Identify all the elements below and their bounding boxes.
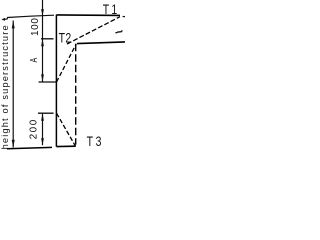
extension line at 100 bottom bbox=[41, 38, 54, 40]
slab underside line bbox=[77, 42, 125, 44]
svg-text:200: 200 bbox=[29, 118, 40, 139]
hidden web right face (dashed vertical) bbox=[75, 44, 77, 145]
dimension line (height of superstructure) bbox=[12, 21, 14, 148]
svg-text:1: 1 bbox=[111, 2, 117, 18]
chain dimension line lower segment bbox=[42, 113, 44, 146]
svg-text:T: T bbox=[103, 2, 110, 18]
arrowhead up (top of height dim) bbox=[12, 21, 15, 29]
extension line at A bottom bbox=[39, 81, 57, 83]
svg-text:A: A bbox=[28, 58, 39, 63]
deck top line bbox=[56, 14, 120, 17]
arrow down at A bottom bbox=[41, 74, 44, 81]
arrow up at 100 bottom / A top bbox=[41, 39, 44, 46]
bottom extension line (left, slightly skewed) bbox=[7, 147, 52, 148]
chain dimension line upper segment bbox=[42, 0, 44, 82]
hidden haunch diagonal (upper) bbox=[57, 44, 77, 82]
deck top continuation dash bbox=[123, 16, 125, 18]
extension line at 200 top bbox=[38, 112, 54, 114]
arrow up at 200 top bbox=[41, 113, 44, 120]
hidden bottom haunch diagonal bbox=[57, 113, 76, 146]
svg-text:T: T bbox=[87, 133, 94, 149]
arrow down at 200 bottom bbox=[41, 138, 44, 145]
svg-text:100: 100 bbox=[30, 18, 41, 37]
hidden slab taper diagonal to tip bbox=[67, 17, 120, 44]
left arrowhead on top extension line bbox=[1, 18, 5, 21]
svg-text:T: T bbox=[59, 30, 66, 46]
background bbox=[0, 0, 125, 150]
girder bottom edge bbox=[56, 145, 75, 147]
arrow down at deck top (100 top) bbox=[41, 9, 44, 16]
svg-text:2: 2 bbox=[65, 30, 71, 46]
small t mark near right edge bbox=[115, 30, 122, 33]
svg-text:height of superstructure: height of superstructure bbox=[0, 25, 10, 149]
top extension line (left, slightly skewed) bbox=[5, 15, 54, 19]
web left edge bbox=[55, 15, 57, 147]
svg-text:3: 3 bbox=[96, 133, 102, 149]
arrowhead down (bottom of height dim) bbox=[12, 140, 15, 148]
